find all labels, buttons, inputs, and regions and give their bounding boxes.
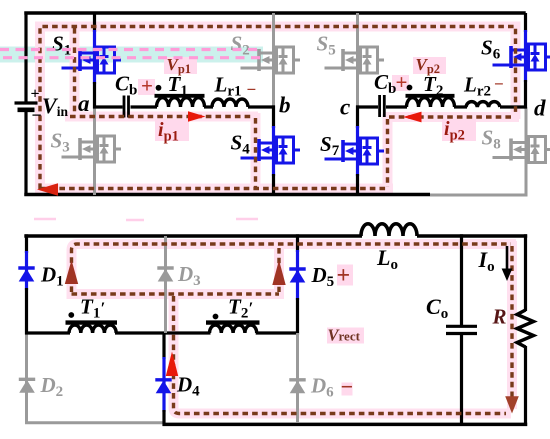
capacitor Cb2 right plate: [383, 95, 386, 117]
left edge wire lower (from battery): [24, 111, 27, 196]
S6 leg drain wire: [524, 13, 527, 32]
svg-text:R: R: [492, 305, 507, 329]
S6 channel (blue): [524, 30, 527, 82]
pink halo behind dashed current loops (top circuit): [40, 27, 516, 190]
inductor Lr1 winding: [212, 99, 248, 107]
capacitor Co bottom plate: [446, 332, 477, 335]
dashed drop through S1: [73, 28, 76, 112]
transformer T1 primary winding: [157, 98, 205, 107]
dashed riser at D5: [277, 248, 280, 292]
svg-text:b: b: [279, 93, 291, 118]
arrow return (red, left, bottom of inverter): [37, 183, 58, 195]
transformer T1' secondary bar: [66, 320, 118, 324]
right edge lower: [524, 346, 527, 426]
arrow ip1 (red, right): [188, 111, 206, 121]
rectifier top rail left of Lo: [24, 234, 362, 238]
inductor Lo winding: [361, 224, 417, 236]
svg-text:T1′: T1′: [80, 295, 105, 322]
transistor S5: [325, 47, 385, 73]
arrow Io (black, down): [506, 246, 509, 270]
S5 leg (gray) top rail to node c: [356, 13, 359, 106]
capacitor Cb2 left plate: [378, 95, 381, 117]
svg-text:+: +: [396, 70, 408, 94]
wire node c to Cb2: [356, 105, 378, 108]
bottom rail black part: [24, 193, 430, 197]
svg-text:−: −: [247, 80, 257, 99]
T2 dot: [407, 85, 413, 91]
svg-text:+: +: [337, 263, 351, 289]
rectifier bottom rail gray part: [25, 421, 165, 424]
wire T2 to Lr2: [454, 105, 467, 108]
top rail of inverter: [24, 11, 525, 15]
D4 lead blue: [162, 357, 165, 412]
dashed rectifier top loop left riser and top: [72, 244, 512, 292]
left edge to winding row: [25, 288, 28, 335]
T2' dot: [213, 314, 219, 320]
svg-text:+: +: [31, 86, 40, 103]
left edge top segment: [25, 234, 28, 253]
wire node a to Cb: [93, 105, 123, 108]
dashed ip1 segment: [70, 115, 253, 118]
D4 leg upper black: [162, 333, 165, 359]
winding row wire left: [25, 331, 70, 334]
transistor S8: [493, 137, 550, 163]
dashed ip2 segment: [389, 115, 514, 118]
svg-text:+: +: [141, 74, 153, 98]
pink halo behind dashed current loops (rectifier circuit): [72, 244, 513, 414]
T1 dot: [156, 85, 162, 91]
svg-text:Vrect: Vrect: [328, 326, 361, 345]
D1 lead blue: [25, 251, 28, 290]
node c to S7 drain: [356, 105, 359, 128]
left edge wire upper (to battery): [24, 12, 27, 102]
dashed drop through S7: [386, 119, 389, 187]
S1 leg drain wire: [93, 13, 96, 32]
pink halo rects behind colored labels: [138, 57, 476, 396]
dashed loop outer left+top+right (ip path): [40, 27, 516, 190]
transistor S3: [62, 136, 122, 162]
transformer T1 primary bar: [155, 94, 205, 98]
S2 leg (gray) top rail to node b: [272, 13, 275, 106]
transistor S7: [325, 138, 385, 164]
S7 channel (blue): [356, 126, 359, 176]
svg-text:−: −: [494, 75, 504, 94]
capacitor Cb left plate: [123, 96, 126, 118]
D5 leg lower black: [296, 298, 299, 335]
transistor S1: [62, 47, 122, 73]
dashed rectifier loop lower side: [72, 292, 280, 295]
transistor S2: [241, 47, 301, 73]
S4 source to bottom rail: [272, 174, 275, 196]
S1 source to node a: [93, 82, 96, 109]
diode D1: [18, 268, 34, 282]
arrow up left riser: [65, 260, 78, 284]
S1 leg channel (blue): [93, 30, 96, 84]
rectifier top rail right of Lo: [417, 234, 527, 238]
wire Cb to T1: [131, 105, 158, 108]
svg-text:T2′: T2′: [228, 295, 253, 322]
D6 leg gray: [296, 333, 299, 423]
battery Vin short plate: [18, 108, 35, 113]
capacitor Co top plate: [446, 325, 477, 328]
transformer T2' secondary bar: [206, 320, 260, 324]
T1' dot: [68, 312, 74, 318]
wire Lr2 to node d: [500, 105, 527, 108]
svg-text:−: −: [32, 105, 42, 125]
svg-text:d: d: [534, 96, 546, 121]
diode D6: [289, 380, 305, 394]
pink dashed artifact line lower: [3, 56, 263, 59]
S7 source to bottom rail: [356, 174, 359, 196]
Co leg lower: [460, 334, 463, 425]
diode D4: [155, 380, 171, 394]
highlight cyan band artifact: [0, 47, 263, 63]
inductor Lr2 winding: [466, 102, 500, 107]
winding row wire middle: [115, 331, 211, 334]
S6 source to node d: [524, 80, 527, 109]
rectifier bottom rail black part: [163, 423, 528, 427]
winding row wire right: [256, 331, 299, 334]
transistor S4: [241, 137, 301, 163]
diode D2: [19, 379, 35, 393]
wire Cb2 to T2: [386, 105, 407, 108]
arrow ip2 (red, left): [403, 112, 422, 123]
Co leg upper: [460, 234, 463, 326]
svg-text:c: c: [340, 95, 350, 120]
arrow up at D4 (red): [166, 352, 178, 377]
capacitor Cb right plate: [127, 96, 130, 118]
transformer T2' secondary winding: [210, 325, 257, 333]
node b to S4 drain: [272, 105, 275, 128]
wire Lr1 to node b: [248, 105, 275, 108]
S4 channel (blue): [272, 126, 275, 176]
D3 leg gray: [164, 236, 167, 333]
bottom rail gray part: [430, 194, 526, 197]
dashed loop bottom segment: [40, 187, 388, 190]
diode D5: [289, 269, 305, 283]
svg-text:a: a: [78, 91, 90, 116]
D5 lead blue: [296, 250, 299, 300]
dashed drop through S4: [254, 118, 257, 187]
diode D3: [157, 268, 173, 282]
transformer T2 primary winding: [407, 98, 455, 107]
transformer T2 primary bar: [406, 94, 455, 98]
right edge upper: [524, 234, 527, 311]
S8 leg (gray) node d to bottom rail: [525, 107, 528, 197]
transistor S6: [493, 44, 550, 70]
S3 leg (gray) node a to bottom rail: [93, 107, 96, 195]
battery Vin long plate: [15, 101, 38, 104]
wire T1 to Lr1: [204, 105, 213, 108]
transformer T1' secondary winding: [69, 325, 116, 333]
D5 leg upper black: [296, 234, 299, 252]
dashed output right drop: [510, 246, 513, 404]
pink artifact dashes between circuits: [34, 219, 258, 220]
left edge lower gray (D2 branch): [25, 333, 28, 424]
resistor R zigzag: [517, 310, 534, 347]
pink dashed artifact line upper: [0, 48, 263, 51]
arrow up right riser: [272, 260, 285, 285]
D4 leg lower black: [162, 410, 165, 426]
dashed riser through D4 and output bottom: [174, 296, 507, 414]
arrow down output loop: [505, 396, 519, 413]
svg-text:−: −: [341, 374, 354, 399]
